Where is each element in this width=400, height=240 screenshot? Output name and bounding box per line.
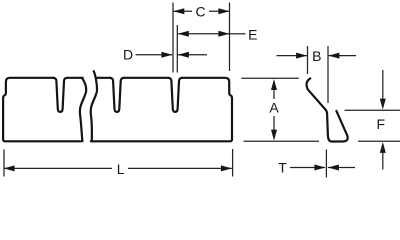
extension line A bottom (244, 140, 320, 142)
dimension E (177, 25, 245, 73)
cross-section profile (end view of bent strip) (307, 78, 348, 141)
dimension F (345, 70, 400, 170)
part outline: slotted strip front view (3, 71, 232, 141)
break line right (91, 71, 97, 141)
dim line D right part (178, 54, 207, 56)
dim line C (173, 10, 192, 12)
extension line E left (176, 25, 178, 73)
dim line L (4, 167, 112, 169)
wire: top edge seg3 (break to slot2) (97, 77, 110, 79)
extension line F bottom (358, 140, 400, 142)
arrowhead L left (4, 165, 15, 171)
break line left (80, 79, 86, 141)
extension line T (325, 150, 327, 178)
arrowhead D (points right at slot) (161, 52, 172, 58)
svg-text:A: A (269, 100, 279, 116)
slot 2 (110, 78, 124, 112)
wire: right end outline (top edge seg5, right edge with jog, bottom edge to break) (91, 78, 232, 142)
extension line B left (307, 46, 309, 74)
wire: bent sheet profile with wedge foot (307, 78, 348, 141)
dim line T right (328, 167, 355, 169)
dimension C (173, 3, 230, 73)
dimension B (277, 46, 357, 103)
extension line B right (327, 46, 329, 103)
svg-text:F: F (377, 116, 386, 132)
dim line B left part (277, 55, 308, 57)
extension line F top (345, 109, 400, 111)
arrow shaft F top (382, 70, 384, 99)
dim line T left (290, 167, 325, 169)
svg-text:B: B (312, 48, 321, 64)
extension line A top (241, 77, 298, 79)
arrowhead E left (178, 31, 189, 37)
dimension T (290, 150, 355, 178)
dimension L (4, 149, 233, 177)
wire: top edge seg4 (124, 77, 169, 79)
extension line L left (3, 150, 5, 177)
arrowhead B (points right) (296, 53, 307, 59)
extension line C/E right (229, 3, 231, 72)
arrow shaft F bottom (382, 152, 384, 170)
arrowhead A down (271, 130, 277, 141)
dim line A (273, 88, 275, 99)
svg-text:E: E (248, 27, 257, 43)
svg-text:T: T (278, 159, 287, 175)
extension line L right (232, 149, 234, 177)
extension line C/D left (172, 3, 174, 73)
wire: top edge seg2 (to break) (67, 77, 83, 79)
arrowhead F up (below bottom line) (380, 142, 386, 153)
arrowhead A up (271, 79, 277, 90)
dim line B right part (329, 55, 357, 57)
svg-text:C: C (195, 3, 205, 19)
wire: left end outline (top edge seg1, left edge with jog, bottom edge to break) (3, 78, 81, 142)
arrowhead B (points left) (328, 53, 339, 59)
arrowhead T (points left) (328, 165, 339, 171)
slot 1 (53, 78, 67, 112)
arrowhead D (points left at slot) (178, 52, 189, 58)
arrowhead L right (221, 165, 232, 171)
svg-text:D: D (123, 47, 133, 63)
arrowhead E right (218, 31, 229, 37)
arrowhead C right (218, 8, 229, 14)
dimension A (241, 78, 319, 141)
slot 3 (168, 78, 182, 112)
arrowhead C left (173, 8, 184, 14)
dim line E with leader stub to label (178, 33, 229, 35)
arrowhead F down (above top line) (380, 99, 386, 110)
svg-text:L: L (117, 161, 125, 177)
arrowhead T (points right) (314, 165, 325, 171)
dim line D left part (136, 54, 173, 56)
dimension D (136, 54, 208, 56)
